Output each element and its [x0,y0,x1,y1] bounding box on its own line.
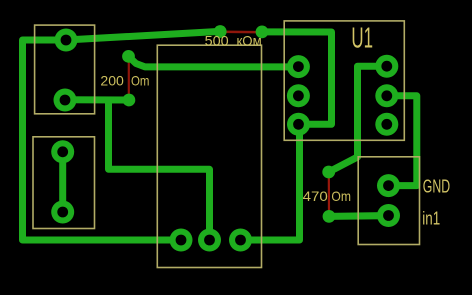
pad connector in1 [377,204,400,227]
wire: connector X2 pad-to-pad vertical trace [59,152,66,212]
svg-text:Om: Om [331,188,351,204]
node: R1 left junction dot [214,25,227,38]
outline component X1 (top-left) [35,25,95,114]
pad U1 pin 5 right column [375,84,398,107]
pad U1 pin 4 right column [375,113,398,136]
outline IC U1 [284,21,404,140]
wire: branch from P2 net down and over to bottom middle pad P6 [109,100,210,240]
pad P2 component X1 bottom [54,89,77,112]
resistor R3 body line (470 Om) [328,172,330,216]
svg-text:in1: in1 [422,208,440,228]
svg-text:470: 470 [303,188,328,204]
pad U1 pin 2 left column [287,84,310,107]
node: R1 right junction dot [256,26,269,39]
outline component X2 (left, below X1) [33,137,95,229]
wire: pad P2 to resistor R2 bottom node [65,96,129,103]
pad P3 component X2 top [51,140,74,163]
svg-text:кОм: кОм [237,33,262,49]
svg-text:U1: U1 [351,23,373,55]
pad U1 pin 1 left column [287,55,310,78]
node: R2 top junction dot [122,50,135,63]
value label 500 kOm [205,33,262,49]
node: R3 bottom junction dot [323,210,336,223]
pad U1 pin 3 left column [287,113,310,136]
svg-text:GND: GND [423,176,450,196]
node: R2 bottom junction dot [122,94,135,107]
wire: resistor R3 bottom node to connector pad in1 [329,212,389,220]
resistor R2 body line (200 Om) [128,56,130,100]
wire: resistor R1 right node to U1 pin 3 (left col bottom) [262,32,332,124]
resistor R1 body line (500 kOm) [220,31,262,34]
wire: bottom pad P7 right then up to U1 pin 3 [241,125,300,240]
pad P4 component X2 bottom [51,201,74,224]
pad P6 bottom row middle [198,229,221,252]
outline connector (GND / in1) [358,157,419,245]
node: R3 top junction dot [322,166,335,179]
pad U1 pin 6 right column [375,55,398,78]
outline component X3 (middle large box) [157,45,261,267]
wire: net from pad P1 left-down-around to bottom pad row [23,40,181,240]
pad connector GND [377,174,400,197]
svg-text:500: 500 [205,33,229,49]
wire: U1 right pin 1 left and down to resistor R3 top node [329,66,387,172]
svg-text:Om: Om [131,72,150,88]
pad P1 component X1 top [55,29,78,52]
wire: U1 right pin 2 to connector pad GND [387,96,417,186]
value label 470 Om [303,188,351,204]
value label 200 Om [100,72,149,88]
svg-text:200: 200 [100,72,124,88]
pad P7 bottom row right [229,229,252,252]
wire: resistor R2 top node curving to U1 pin 1 (left col top) [129,56,299,67]
wire: diagonal trace pad P1 to resistor R1 left node [66,31,220,40]
pad P5 bottom row left [170,229,193,252]
